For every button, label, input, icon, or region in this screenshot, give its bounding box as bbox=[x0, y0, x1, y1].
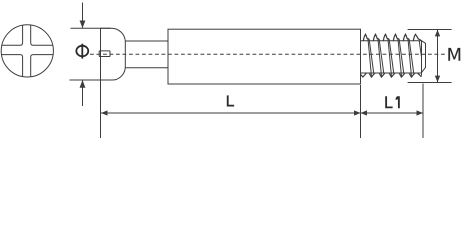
thread crest teeth bottom bbox=[361, 73, 422, 77]
centerline (dashed axis) bbox=[90, 53, 446, 55]
dim L1: dimension line bbox=[361, 112, 424, 114]
dim phi: extension line top bbox=[71, 27, 111, 29]
thread root cylinder bbox=[361, 41, 422, 76]
cross recess (front view phillips slot) bbox=[0, 23, 55, 78]
dim phi: arrow bottom bbox=[82, 81, 84, 107]
head (side view outline) bbox=[101, 28, 126, 80]
dim M: label bbox=[448, 48, 460, 61]
cross recess slot (side view) bbox=[99, 51, 110, 57]
dim M: extension line bottom bbox=[408, 82, 452, 84]
dim L: label bbox=[227, 95, 234, 106]
dim L1: label bbox=[385, 96, 400, 108]
thread flank lines bbox=[368, 39, 422, 77]
dim M: extension line top bbox=[408, 29, 452, 31]
dim M: dimension line bbox=[437, 30, 439, 82]
thread tip chamfer bbox=[422, 41, 426, 73]
thread crest teeth top bbox=[363, 34, 421, 41]
dim phi: extension line bottom bbox=[70, 79, 111, 81]
dim L/L1: shared extension line bbox=[360, 85, 362, 138]
dim L1: extension line right bbox=[422, 84, 424, 139]
dim L: extension line left bbox=[100, 81, 102, 139]
neck bbox=[125, 41, 168, 68]
front view head circle bbox=[1, 25, 53, 77]
dim L: dimension line bbox=[101, 112, 361, 114]
dim phi: label bbox=[76, 44, 88, 59]
dim phi: arrow top bbox=[82, 3, 84, 28]
barrel sleeve bbox=[168, 29, 361, 84]
